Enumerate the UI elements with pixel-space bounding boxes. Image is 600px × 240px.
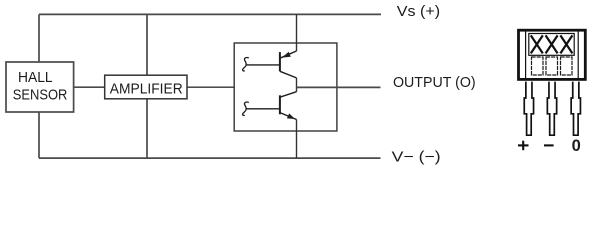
svg-text:V− (−): V− (−) xyxy=(392,149,441,166)
package outer body xyxy=(519,30,586,79)
X mark 3 xyxy=(560,35,572,53)
svg-text:Vs (+): Vs (+) xyxy=(397,3,440,20)
transistor Q1 (PNP, top) xyxy=(247,51,297,78)
Q1 collector diagonal xyxy=(280,71,297,78)
svg-text:AMPLIFIER: AMPLIFIER xyxy=(110,81,183,98)
pin label + xyxy=(518,141,529,151)
package inner left vertical xyxy=(525,32,527,79)
Q2 base bar xyxy=(279,95,281,114)
wire: left vertical (Vs+ to V- through hall sensor) xyxy=(38,14,40,158)
Q1 base bar xyxy=(279,52,281,71)
wire: V- bottom rail xyxy=(39,157,381,159)
package J1 (3-pin device front view) xyxy=(519,30,586,79)
Q1 emitter diagonal xyxy=(280,51,297,58)
amplifier box U1 xyxy=(105,75,187,99)
svg-text:SENSOR: SENSOR xyxy=(13,87,68,104)
pin 2 (-) xyxy=(547,82,556,136)
wire: vertical from Q2 emitter to V- rail xyxy=(296,120,298,159)
package window 2 xyxy=(546,57,558,75)
svg-text:OUTPUT (O): OUTPUT (O) xyxy=(393,74,476,91)
transistor Q2 (NPN, bottom) xyxy=(247,92,297,120)
package inner right vertical xyxy=(577,32,579,79)
wire: collector junction vertical (output node) xyxy=(296,78,298,92)
Q1 emitter arrow (PNP, into base) xyxy=(282,52,291,58)
Q2 base wire xyxy=(247,108,280,110)
Q1 base squiggle (wire continuation symbol) xyxy=(243,58,249,71)
Q2 emitter diagonal xyxy=(280,113,297,120)
pin 3 (0) xyxy=(571,82,580,136)
package X-frame xyxy=(529,34,574,56)
pin 1 (+) xyxy=(524,82,533,136)
package window 1 xyxy=(532,57,544,75)
svg-text:HALL: HALL xyxy=(18,69,53,86)
svg-text:0: 0 xyxy=(572,137,581,155)
Q2 collector diagonal xyxy=(280,92,297,98)
wire: vertical from Vs+ rail to Q1 emitter xyxy=(296,14,298,51)
Q1 base wire xyxy=(247,64,280,66)
transistor block box xyxy=(234,43,337,131)
package window 3 xyxy=(561,57,573,75)
hall sensor box xyxy=(6,62,74,112)
wire: amplifier to transistor block xyxy=(187,86,234,88)
wire: amplifier vertical supply xyxy=(146,14,148,158)
X mark 1 xyxy=(531,35,543,53)
X mark 2 xyxy=(546,35,558,53)
wire: OUTPUT rail xyxy=(297,86,381,88)
Q2 base squiggle (wire continuation symbol) xyxy=(243,102,249,115)
Q2 emitter arrow (NPN, outward) xyxy=(287,113,295,119)
pin label - xyxy=(544,144,554,146)
wire: Vs+ top rail xyxy=(39,13,381,15)
wire: hall sensor to amplifier xyxy=(74,86,105,88)
